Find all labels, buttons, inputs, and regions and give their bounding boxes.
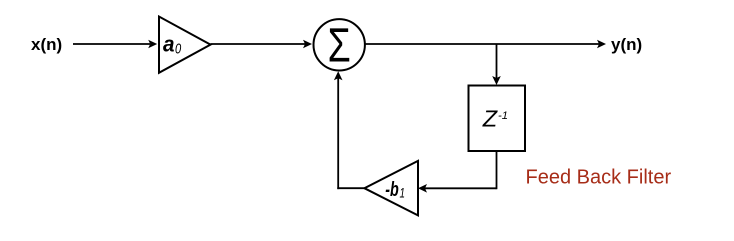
wire feedback up to sum xyxy=(337,77,339,189)
wire input to a0 xyxy=(73,43,150,45)
feedback gain -b1 triangle xyxy=(364,161,418,216)
svg-text:Σ: Σ xyxy=(328,19,351,73)
wire sum to output y(n) xyxy=(365,43,599,45)
svg-text:x(n): x(n) xyxy=(31,35,62,54)
svg-text:a: a xyxy=(163,31,175,56)
delay block Z^-1 xyxy=(469,86,526,152)
svg-text:1: 1 xyxy=(400,185,406,201)
wire branch node down to delay xyxy=(496,44,498,79)
svg-text:-1: -1 xyxy=(498,110,508,122)
svg-text:Feed Back Filter: Feed Back Filter xyxy=(526,166,672,188)
amplifier a0 triangle xyxy=(159,17,211,73)
wire delay down xyxy=(496,151,498,189)
wire b1 tip left xyxy=(337,187,364,189)
svg-text:Z: Z xyxy=(482,106,499,132)
wire delay to b1 xyxy=(425,187,497,189)
svg-text:0: 0 xyxy=(175,41,182,58)
wire a0 to sum xyxy=(211,43,306,45)
summing junction sigma xyxy=(314,19,365,70)
svg-text:-b: -b xyxy=(385,179,399,201)
svg-text:y(n): y(n) xyxy=(611,35,642,54)
